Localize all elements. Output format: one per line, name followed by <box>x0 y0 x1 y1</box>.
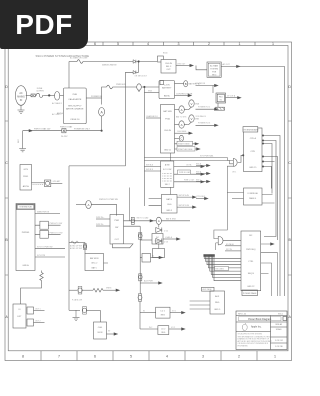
svg-text:1: 1 <box>239 42 241 46</box>
svg-text:SYS RTN: SYS RTN <box>37 255 46 257</box>
svg-text:ARTER CHARGE: ARTER CHARGE <box>66 107 84 110</box>
meter C1 <box>175 137 180 139</box>
logo <box>242 324 247 330</box>
sub box S4 <box>27 307 34 314</box>
svg-text:CALACANTE: CALACANTE <box>68 98 82 101</box>
system board header label <box>243 127 258 132</box>
svg-text:PROHIBITED: PROHIBITED <box>238 346 249 348</box>
ground bar under U18 <box>217 103 219 107</box>
svg-text:3: 3 <box>178 42 180 46</box>
left band ticks <box>5 121 8 275</box>
svg-text:EN LINES: EN LINES <box>216 269 225 271</box>
wire M1 out1 <box>174 166 203 168</box>
svg-text:GND A: GND A <box>22 264 29 267</box>
mc block U13 <box>241 231 261 291</box>
wire drop to charger block <box>99 310 101 322</box>
svg-text:SYSTEM BOARD: SYSTEM BOARD <box>242 129 258 132</box>
svg-text:BAT B: BAT B <box>166 198 172 201</box>
svg-text:START PAGE: START PAGE <box>178 143 190 146</box>
svg-text:SCALE: SCALE <box>276 328 283 331</box>
svg-text:PWR05: PWR05 <box>22 232 30 234</box>
svg-text:PWR B TO PWR SW: PWR B TO PWR SW <box>99 199 118 201</box>
svg-text:SW: SW <box>115 227 118 229</box>
wire M1 in1 <box>144 166 160 168</box>
sub box S1 <box>40 221 48 229</box>
wire FGA charge in <box>146 117 161 119</box>
wire FGA chg out <box>175 132 191 134</box>
wire battery bus down-left <box>68 166 70 310</box>
svg-text:OUT 2: OUT 2 <box>35 321 41 323</box>
svg-text:GND 22: GND 22 <box>247 286 255 288</box>
fuse F3 on pwr bus <box>107 85 113 89</box>
svg-text:OR SET A OUT: OR SET A OUT <box>135 74 148 77</box>
wire battery riser horizontal <box>69 165 126 167</box>
wire GPS to RF connector <box>32 182 45 184</box>
svg-text:BATTERY: BATTERY <box>162 87 172 90</box>
charger block U14 <box>94 322 107 339</box>
title text <box>239 317 282 321</box>
wire U4 pin4 <box>35 256 65 258</box>
svg-text:CHG OUT: CHG OUT <box>177 63 186 65</box>
svg-text:B500: B500 <box>163 53 167 55</box>
svg-text:1 OF 96: 1 OF 96 <box>275 346 284 348</box>
svg-text:SYSTEM: SYSTEM <box>210 69 218 71</box>
wire U6 pin2 <box>96 225 110 227</box>
svg-text:AC MAIN CHG LINE: AC MAIN CHG LINE <box>70 56 88 59</box>
mux block M1 <box>161 161 174 187</box>
label box above U17 <box>202 287 215 291</box>
or gate X2 <box>218 236 223 245</box>
node N1 connector circle <box>55 92 60 101</box>
svg-text:PWR IN +: PWR IN + <box>96 217 105 219</box>
svg-text:POWER IN #3: POWER IN #3 <box>198 123 210 125</box>
wire FGA start-ab out <box>175 148 199 150</box>
svg-text:PWR B LOAD: PWR B LOAD <box>179 171 191 174</box>
svg-text:6: 6 <box>94 355 96 359</box>
svg-text:RST IN: RST IN <box>226 249 233 251</box>
diode D1 <box>133 60 136 64</box>
svg-text:L-ION: L-ION <box>164 85 170 87</box>
svg-text:IN 2: IN 2 <box>149 327 152 329</box>
svg-text:B C D SW: B C D SW <box>163 169 171 171</box>
bottom mid block U16 <box>158 326 169 335</box>
svg-text:POWER IN: POWER IN <box>91 96 102 98</box>
svg-text:2: 2 <box>208 42 210 46</box>
svg-text:C: C <box>288 161 291 165</box>
wire FGA out1 <box>175 109 180 111</box>
wire U9 out1 <box>177 196 194 198</box>
svg-text:PWR BUS: PWR BUS <box>116 84 126 86</box>
svg-text:VO 2: VO 2 <box>171 327 175 329</box>
svg-text:D 13: D 13 <box>164 242 168 244</box>
svg-text:AUX PAGE: AUX PAGE <box>203 288 213 291</box>
battery monitor block MB2 <box>85 254 104 271</box>
svg-text:REV 1.04: REV 1.04 <box>238 313 246 315</box>
svg-text:2: 2 <box>238 355 240 359</box>
cpu input arrows <box>196 166 208 182</box>
svg-text:ITA5: ITA5 <box>73 93 78 96</box>
svg-text:CHG IN: CHG IN <box>165 63 173 65</box>
svg-text:D 12: D 12 <box>164 231 168 233</box>
block FGA U2 <box>161 105 175 154</box>
PSU block U1 <box>64 88 87 124</box>
svg-text:GND 15: GND 15 <box>249 167 257 169</box>
io block U12 <box>244 188 263 205</box>
svg-text:SYS TO PWR SW: SYS TO PWR SW <box>37 247 53 249</box>
svg-text:A RED 3/P SW: A RED 3/P SW <box>70 247 82 250</box>
svg-text:PWR A TO SW: PWR A TO SW <box>50 222 63 225</box>
svg-text:10 PER: 10 PER <box>36 90 44 92</box>
svg-text:ANT A: ANT A <box>23 185 30 188</box>
svg-text:CRGE 16: CRGE 16 <box>70 119 80 121</box>
power switch block U6 <box>110 215 124 245</box>
connector J1 <box>62 129 66 133</box>
power page label box <box>242 290 258 296</box>
svg-text:OR 1: OR 1 <box>232 172 236 174</box>
svg-text:RX01: RX01 <box>23 176 29 178</box>
wire T2 output AC OUT <box>221 65 284 67</box>
svg-text:SIZE A3: SIZE A3 <box>275 323 282 326</box>
svg-text:SW TO LOAD: SW TO LOAD <box>137 216 149 219</box>
wire pair to gate <box>144 158 233 164</box>
svg-text:TITLE A PROTOTYPE SYSTEM: TITLE A PROTOTYPE SYSTEM <box>238 332 263 335</box>
fan label box <box>215 267 229 271</box>
svg-text:POWER PAGE: POWER PAGE <box>243 292 257 295</box>
svg-text:1 OF 24: 1 OF 24 <box>275 340 284 342</box>
svg-text:PWR: PWR <box>114 220 119 222</box>
svg-text:D: D <box>288 85 291 89</box>
wire bus A vertical <box>143 87 145 206</box>
generator G1 (AC mains source) <box>15 86 26 106</box>
svg-text:SEL 3: SEL 3 <box>166 66 172 68</box>
wire drop to aux psu <box>212 86 214 94</box>
wire U6 out2 to load bus <box>124 225 141 227</box>
meter A5 <box>156 217 161 224</box>
svg-text:4: 4 <box>166 355 168 359</box>
svg-text:POWER IN: POWER IN <box>196 83 206 85</box>
fuse F2 on mains rail <box>77 60 83 64</box>
wire U4 pin3 <box>35 248 65 250</box>
right band ticks <box>288 121 292 275</box>
ground <box>18 110 25 114</box>
block T2 (AC main system) <box>207 62 221 77</box>
fuse F5 on load bus <box>138 234 142 238</box>
svg-text:SYSTEM HUB: SYSTEM HUB <box>19 207 32 209</box>
diode D3 <box>156 228 162 233</box>
wire T1 to T2 <box>196 66 207 70</box>
wire U1 top to mains/charge rail <box>68 62 70 89</box>
svg-text:VBA: VBA <box>195 103 200 106</box>
svg-text:CHARGE IN #: CHARGE IN # <box>146 115 159 118</box>
svg-text:SYS PWR RAIL: SYS PWR RAIL <box>200 154 213 157</box>
battery block BT1 <box>160 81 163 85</box>
wire BT1 pin2 <box>144 92 159 94</box>
sub box S5 <box>27 319 34 326</box>
mc left pin upper1 <box>225 245 241 247</box>
svg-text:D: D <box>5 85 8 89</box>
svg-text:A RED 2/P SW: A RED 2/P SW <box>70 245 82 248</box>
wire B1 label <box>175 83 184 85</box>
svg-text:A SW: A SW <box>165 164 170 167</box>
svg-text:PWR C OUT: PWR C OUT <box>184 180 195 182</box>
svg-text:SYS RAIL B: SYS RAIL B <box>196 115 207 118</box>
border outer frame <box>5 42 292 361</box>
cpu block U11 <box>244 128 262 172</box>
svg-text:CPU A: CPU A <box>250 137 257 140</box>
svg-text:CTRL: CTRL <box>248 261 254 263</box>
svg-text:SEL 2: SEL 2 <box>165 184 170 186</box>
svg-text:5: 5 <box>130 355 132 359</box>
svg-text:4: 4 <box>147 42 149 46</box>
wire U9 in1 <box>149 199 162 206</box>
wire N2 to battery <box>141 86 159 88</box>
svg-text:Power Block Diagram: Power Block Diagram <box>248 318 271 321</box>
svg-text:ANT A: ANT A <box>57 112 63 115</box>
wire U6 out load rail <box>124 220 191 222</box>
address lines <box>238 332 272 347</box>
wire mains rail lower from battery riser <box>126 72 134 166</box>
svg-text:6: 6 <box>94 42 96 46</box>
ammeter A4 on pwr rail <box>76 204 86 206</box>
wire G1 to connector <box>26 94 31 96</box>
wire tap to battery monitor <box>69 242 85 244</box>
svg-text:F 2A SLOW: F 2A SLOW <box>72 299 82 302</box>
svg-text:CHG PAGE: CHG PAGE <box>177 130 187 133</box>
svg-text:LOAD A: LOAD A <box>165 236 173 239</box>
svg-text:AUX: AUX <box>215 295 220 298</box>
svg-text:SW IN A: SW IN A <box>146 163 154 166</box>
svg-text:REG: REG <box>161 332 165 334</box>
svg-text:CHG: CHG <box>167 204 172 206</box>
ground <box>19 149 26 152</box>
wire load bus vertical <box>139 226 141 293</box>
svg-text:SRS-SUPPLY: SRS-SUPPLY <box>68 106 82 108</box>
meter V2 <box>189 115 194 122</box>
junction dot <box>48 95 50 97</box>
fuse F10 <box>84 243 86 254</box>
bat B block U9 <box>161 195 177 214</box>
svg-text:PWR TO BAT: PWR TO BAT <box>60 126 73 129</box>
svg-text:BAT A: BAT A <box>164 95 170 98</box>
svg-text:PWR IN -: PWR IN - <box>96 224 104 226</box>
svg-text:GND 9: GND 9 <box>214 309 221 311</box>
svg-text:SIG A: SIG A <box>196 162 202 165</box>
svg-text:SW IN B: SW IN B <box>146 169 154 171</box>
wire U9 out2 <box>177 206 194 208</box>
svg-text:A: A <box>181 108 183 112</box>
wire T1 output with arrow <box>176 65 190 67</box>
dc block U7 <box>152 234 163 245</box>
svg-text:C: C <box>180 137 182 141</box>
bottom rail fuse F8 <box>69 289 77 291</box>
fuse F6 on load bus <box>138 275 142 279</box>
meter A2 <box>179 106 184 113</box>
svg-text:PWR B TO SW: PWR B TO SW <box>50 232 63 234</box>
svg-text:AC OUT: AC OUT <box>223 63 231 66</box>
svg-text:Apple Inc.: Apple Inc. <box>251 326 262 329</box>
svg-text:C: C <box>5 161 8 165</box>
svg-text:OUT 1: OUT 1 <box>35 309 41 311</box>
bottom band ticks <box>41 351 257 361</box>
svg-text:A: A <box>181 123 183 127</box>
resistor R2 <box>93 288 103 292</box>
wire control page <box>175 95 189 97</box>
svg-text:MON: MON <box>98 332 103 334</box>
mc right pins <box>261 244 278 296</box>
aux psu block U18 <box>216 93 226 103</box>
meter B1 <box>184 81 188 87</box>
svg-text:VO 1: VO 1 <box>172 310 176 312</box>
fan of wires into U13 <box>204 257 241 281</box>
svg-text:PAGE 4: PAGE 4 <box>249 197 257 200</box>
wire F1 to node N1 <box>44 94 55 96</box>
svg-text:GND 11: GND 11 <box>164 150 172 152</box>
svg-text:IO BRIDGE: IO BRIDGE <box>248 193 259 195</box>
svg-text:24-25V: 24-25V <box>61 136 68 138</box>
diode D4 <box>156 239 162 244</box>
diode D2 <box>133 71 136 75</box>
small box U10 <box>153 249 165 258</box>
ammeter A1 <box>101 98 103 105</box>
svg-text:A: A <box>87 203 89 207</box>
power-in tap wire 1 <box>196 85 216 87</box>
fuse F7 bottom of load bus <box>138 296 142 300</box>
GPS block U3 <box>20 165 32 191</box>
svg-text:MC: MC <box>249 235 253 237</box>
sub box S2 <box>40 230 48 238</box>
PDF badge <box>0 0 88 49</box>
svg-text:SSC1: SSC1 <box>278 313 283 315</box>
svg-text:SIG B: SIG B <box>196 171 202 173</box>
wire tap <box>140 282 160 284</box>
svg-text:A: A <box>158 219 160 223</box>
bus verticals from cpu <box>262 136 280 297</box>
wire M1 in2 <box>144 170 160 172</box>
svg-text:BAT TO SYS: BAT TO SYS <box>176 115 187 118</box>
connector X box <box>31 94 35 97</box>
svg-text:AC MAIN: AC MAIN <box>210 65 219 68</box>
svg-text:1: 1 <box>272 42 274 46</box>
svg-text:GPS ANT: GPS ANT <box>53 180 62 183</box>
wire M1 out2 <box>174 173 203 175</box>
svg-text:MAINS/CHARGE: MAINS/CHARGE <box>102 63 117 66</box>
svg-text:BAT B SNS: BAT B SNS <box>166 217 176 220</box>
svg-text:IN: IN <box>20 99 23 102</box>
svg-text:1: 1 <box>274 355 276 359</box>
wire diode join <box>136 62 157 73</box>
svg-text:VBB: VBB <box>195 119 200 121</box>
svg-text:B: B <box>185 82 187 86</box>
svg-text:SETUP B IN: SETUP B IN <box>179 205 190 207</box>
bottom mid block U15 <box>156 307 170 318</box>
node N2 connector circle <box>137 84 142 90</box>
svg-text:BAT MON: BAT MON <box>90 257 99 260</box>
wire gate X2 inputs <box>214 193 227 251</box>
wire FGA out2 <box>175 124 180 126</box>
svg-text:REG: REG <box>161 315 166 317</box>
fuse F4 <box>131 219 135 223</box>
svg-text:5: 5 <box>117 42 119 46</box>
wire U6 pin1 <box>96 218 110 220</box>
svg-text:PWR TO BAT 24V: PWR TO BAT 24V <box>34 127 51 130</box>
svg-text:CHG IN: CHG IN <box>164 130 172 132</box>
wire rail drop to ground <box>22 131 24 149</box>
wire bus feed down <box>129 188 131 221</box>
small block U8 <box>140 257 142 259</box>
svg-text:PWR SEQ: PWR SEQ <box>246 249 256 251</box>
svg-text:REG: REG <box>215 302 220 304</box>
title block <box>236 311 287 350</box>
svg-text:GPS: GPS <box>24 169 29 171</box>
svg-text:BAT 5: BAT 5 <box>92 267 97 270</box>
wire right drop bus <box>284 66 286 296</box>
ground stub <box>73 310 80 320</box>
svg-text:SEQ B: SEQ B <box>248 273 255 275</box>
wire G1 to ground <box>20 105 22 110</box>
svg-text:V: V <box>190 102 192 106</box>
banner under U6 <box>113 244 134 248</box>
system block U4 <box>16 204 35 271</box>
svg-text:NR 4: NR 4 <box>212 75 216 77</box>
svg-text:POWER IN #2: POWER IN #2 <box>198 107 210 109</box>
svg-text:START AB PAGE: START AB PAGE <box>178 148 193 151</box>
svg-text:MAIN PWR IN: MAIN PWR IN <box>37 210 50 213</box>
svg-text:VREG: VREG <box>106 288 112 290</box>
RF connector J2 <box>45 180 51 187</box>
or gate X1 <box>233 159 237 167</box>
wire U1 power in to bus <box>86 97 101 99</box>
bottom rail 2 fuse F9 <box>69 309 80 311</box>
resistor R1 below U4 <box>41 271 43 273</box>
svg-text:EN PAGE: EN PAGE <box>226 243 235 246</box>
svg-text:SETUP A IN: SETUP A IN <box>179 194 190 197</box>
top band ticks <box>103 42 255 46</box>
wire FGA start out <box>175 143 197 145</box>
border inner frame <box>8 46 288 351</box>
svg-text:SIG C: SIG C <box>196 179 202 181</box>
wire pwr-to-bat rail <box>23 130 102 132</box>
wire M1 to M2 <box>170 153 172 195</box>
wire bus riser <box>102 87 107 98</box>
svg-text:GND 3: GND 3 <box>166 210 172 212</box>
svg-text:V: V <box>190 117 192 121</box>
svg-text:CPU: CPU <box>250 151 255 153</box>
svg-text:5V OUT A: 5V OUT A <box>227 95 236 98</box>
svg-text:AC MAIN 1: AC MAIN 1 <box>52 102 63 105</box>
svg-text:CHG: CHG <box>98 327 103 329</box>
svg-text:AUX PWR: AUX PWR <box>144 280 153 283</box>
svg-text:BAT SNS: BAT SNS <box>163 110 172 113</box>
wire N1 to PSU U1 <box>60 94 64 96</box>
wire M1 out3 <box>174 181 203 183</box>
svg-text:3: 3 <box>202 355 204 359</box>
svg-text:7: 7 <box>58 355 60 359</box>
svg-text:8: 8 <box>22 355 24 359</box>
svg-text:FGA: FGA <box>165 118 170 121</box>
wire to dc block <box>140 239 152 241</box>
wire aux psu out <box>226 97 239 99</box>
wire gate lower input <box>227 166 243 192</box>
meter A3 <box>179 121 184 128</box>
bottom right block U17 <box>210 291 225 314</box>
svg-text:OUT A: OUT A <box>186 163 192 166</box>
meter V1 <box>189 100 194 107</box>
mc left pin upper2 <box>225 250 241 252</box>
left io block U5 <box>13 304 26 328</box>
wire mains rail upper <box>69 61 77 63</box>
svg-text:CELL 2: CELL 2 <box>91 263 97 265</box>
wire U4 pin top <box>35 213 60 215</box>
